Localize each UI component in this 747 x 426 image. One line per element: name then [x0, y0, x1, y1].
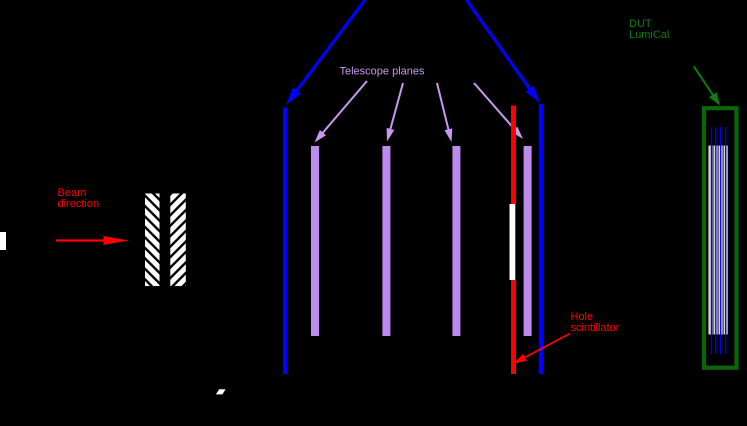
svg-text:direction: direction: [58, 198, 100, 210]
svg-text:scintillator: scintillator: [571, 322, 620, 334]
svg-text:Telescope planes: Telescope planes: [340, 66, 426, 78]
svg-text:LumiCal: LumiCal: [629, 29, 669, 41]
